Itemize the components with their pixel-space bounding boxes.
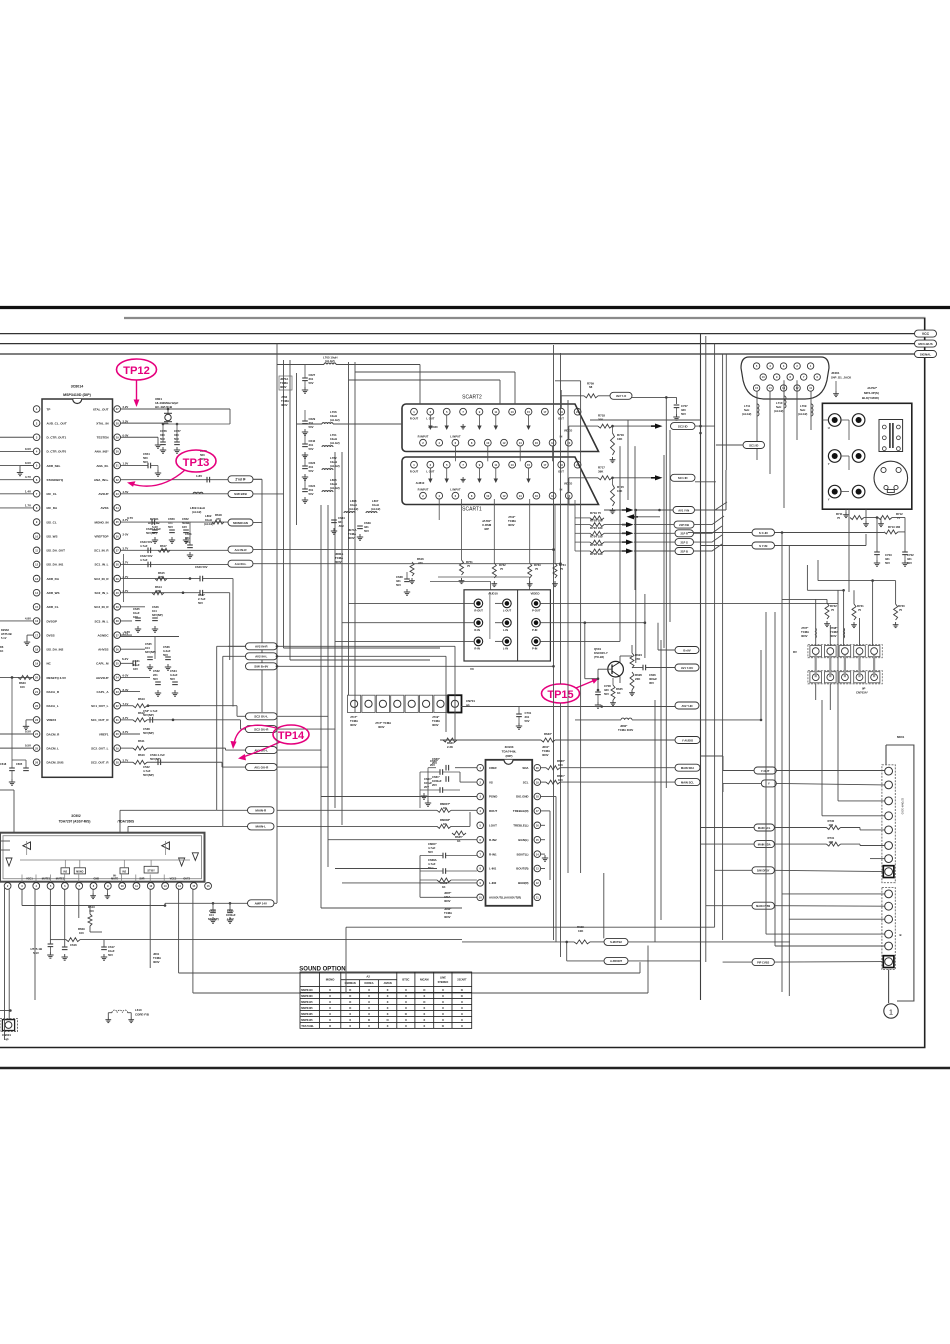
svg-text:R720 180: R720 180 — [590, 519, 603, 523]
svg-text:D_CTR_OUT0: D_CTR_OUT0 — [47, 450, 67, 454]
svg-text:10: 10 — [486, 494, 489, 498]
svg-text:2SCART: 2SCART — [457, 979, 467, 982]
svg-text:4.7V: 4.7V — [25, 475, 31, 479]
svg-text:CORE-F/B: CORE-F/B — [135, 1013, 149, 1017]
svg-text:50V(NP): 50V(NP) — [146, 531, 157, 535]
svg-text:47K: 47K — [635, 657, 641, 661]
wire pin3 down-right long — [21, 889, 23, 905]
M001 bottom stub and sheet reference 1 — [888, 970, 890, 1003]
M001 pin 3 — [885, 797, 893, 805]
svg-text:Y: Y — [828, 462, 830, 466]
svg-text:X: X — [461, 1018, 463, 1022]
svg-text:R612: R612 — [138, 711, 145, 715]
net label MAIN SCL right — [754, 824, 774, 831]
IC903 pin row 7 (R-IN1) — [477, 851, 484, 858]
svg-text:3C8014: 3C8014 — [71, 385, 84, 389]
RCA jack P-IN row 3 — [532, 637, 541, 646]
svg-text:X: X — [442, 1006, 444, 1010]
wire A-FRONT right — [628, 960, 701, 962]
net 21P B arrow — [626, 548, 634, 553]
svg-text:LINE: LINE — [440, 975, 446, 979]
wire to IC U801 left pin — [0, 479, 33, 481]
svg-text:ST-BY: ST-BY — [147, 869, 155, 872]
svg-text:MAIN-L: MAIN-L — [256, 825, 267, 829]
net label AV2 Y-IN — [675, 702, 699, 709]
wire TESTEN to ground — [121, 436, 159, 438]
net label AV1 OU-L — [246, 747, 278, 754]
svg-text:63V(NP): 63V(NP) — [145, 650, 156, 654]
svg-text:300V: 300V — [542, 753, 549, 757]
svg-text:V0: V0 — [470, 667, 474, 671]
svg-text:AV1 Y-IN: AV1 Y-IN — [678, 508, 689, 512]
wire IC903 bottom to S-MUTE2 row — [555, 875, 557, 942]
wire CREF caps — [455, 767, 477, 769]
net label AV1 OU-R — [246, 764, 278, 771]
connector CN701 8P — [348, 695, 361, 712]
svg-text:4-7uF: 4-7uF — [140, 558, 148, 562]
IC U801 pin row 4 (D_CTR_OUT0 / ANA_IN2*) — [33, 448, 40, 455]
svg-text:0.5V: 0.5V — [25, 729, 31, 733]
net label MONO1AN — [228, 519, 253, 526]
IC U801 pin row 21 (DACA_R / CAPL_A) — [33, 688, 40, 695]
svg-text:0.0V: 0.0V — [25, 461, 31, 465]
svg-text:ADR_SEL: ADR_SEL — [47, 464, 61, 468]
svg-text:X: X — [442, 1012, 444, 1016]
wires IC903 left pins to left buses — [321, 796, 477, 798]
wire AMP14V pill to bus x277 — [274, 902, 277, 904]
svg-text:AUXOUT(L)AUXOUT(R): AUXOUT(L)AUXOUT(R) — [489, 896, 521, 900]
wire horizontals upper right — [725, 470, 727, 510]
svg-text:50V: 50V — [170, 677, 175, 681]
svg-text:MAIN SDA: MAIN SDA — [681, 766, 694, 770]
svg-text:17: 17 — [543, 410, 546, 414]
vertical wire to S-MUTE2 — [603, 873, 605, 938]
svg-text:1.8V: 1.8V — [196, 474, 202, 478]
svg-text:TESTEN: TESTEN — [97, 436, 109, 440]
svg-text:18: 18 — [551, 494, 554, 498]
net label AV2 IN-R — [246, 643, 278, 650]
svg-text:13: 13 — [511, 463, 514, 467]
svg-text:MCU-BUS: MCU-BUS — [918, 342, 932, 346]
svg-text:SVR: SVR — [139, 878, 144, 881]
net label 21P G — [675, 539, 694, 546]
net label AV1 Y-OU — [675, 664, 699, 671]
svg-text:S Y-IN: S Y-IN — [759, 544, 767, 548]
svg-text:X: X — [442, 988, 444, 992]
svg-text:10K: 10K — [578, 929, 584, 933]
M001 pin 13 — [885, 942, 893, 950]
connector JK001 pin circles — [753, 363, 759, 369]
svg-text:X: X — [368, 1000, 370, 1004]
svg-text:75: 75 — [899, 608, 903, 612]
wire to IC U801 left pin — [0, 733, 33, 735]
M001 pin 5 — [885, 826, 893, 834]
svg-text:VS: VS — [489, 780, 493, 784]
svg-text:X: X — [387, 1006, 389, 1010]
bottom horizontal y993 chain — [639, 962, 641, 973]
svg-text:MONO: MONO — [76, 871, 83, 873]
svg-text:AV2 Y-O: AV2 Y-O — [616, 394, 626, 398]
IC U801 pin row 19 (NC / CAPL_M) — [33, 660, 40, 667]
svg-text:TDA7449L: TDA7449L — [502, 750, 517, 754]
small buffer triangle left — [6, 858, 12, 866]
svg-text:(ALG2): (ALG2) — [330, 418, 340, 422]
svg-text:A-FRONT: A-FRONT — [610, 959, 622, 963]
svg-text:BGN(R): BGN(R) — [518, 881, 528, 885]
svg-text:X: X — [442, 1000, 444, 1004]
svg-text:75: 75 — [831, 608, 835, 612]
inductor J660 TCMA 300V — [621, 718, 632, 720]
svg-text:300V: 300V — [350, 723, 357, 727]
wire MAIN-R to RM607 — [277, 809, 437, 811]
IC903 pin row 3 (PGND) — [477, 793, 484, 800]
svg-text:SC1_OUT_R: SC1_OUT_R — [91, 718, 110, 722]
net label Ant IN-L — [228, 560, 253, 567]
svg-text:MP4-3P(S): MP4-3P(S) — [864, 391, 879, 395]
svg-text:X: X — [349, 1012, 351, 1016]
wire to IC U801 left pin — [0, 676, 33, 678]
vertical bus right area — [781, 532, 783, 992]
wire to IC U801 left pin — [0, 450, 33, 452]
svg-text:CN701: CN701 — [466, 699, 475, 703]
svg-text:X: X — [387, 1000, 389, 1004]
svg-text:GND: GND — [94, 878, 100, 881]
svg-text:AV2 IN-L: AV2 IN-L — [255, 655, 267, 659]
M001 pin 11 — [885, 915, 893, 923]
svg-text:(DIP): (DIP) — [506, 754, 513, 758]
svg-text:DACA_L: DACA_L — [47, 704, 59, 708]
svg-text:75: 75 — [467, 564, 471, 568]
net SIGNAL label — [915, 351, 937, 358]
svg-text:MSP3410: MSP3410 — [301, 988, 313, 992]
IC U801 pin row 15 (ADR_CL / SC3_IN_R) — [33, 604, 40, 611]
svg-text:MSP3405: MSP3405 — [301, 1006, 313, 1010]
resistor R630 100 on SDA — [541, 767, 546, 769]
connector M001 strip group1 — [882, 765, 895, 883]
svg-text:AHVSS: AHVSS — [98, 648, 108, 652]
svg-text:L-IN2: L-IN2 — [489, 881, 497, 885]
svg-text:(TO-92): (TO-92) — [594, 655, 604, 659]
svg-text:X: X — [368, 988, 370, 992]
IC U801 pin row 11 (I2S_DA_OUT / SC1_IN_R) — [33, 547, 40, 554]
wire amp left edge rows — [0, 840, 10, 842]
svg-text:MSP3445: MSP3445 — [301, 1018, 313, 1022]
svg-text:Ant IN-L: Ant IN-L — [235, 562, 247, 566]
svg-text:16: 16 — [535, 494, 538, 498]
IC U801 pin row 20 (RESETQ 3-5V / AHVSUP) — [33, 674, 40, 681]
left edge vertical wires near amp — [4, 888, 6, 1040]
svg-text:(ALG2): (ALG2) — [349, 507, 358, 511]
svg-text:75: 75 — [560, 567, 564, 571]
vertical bus x666 — [665, 397, 667, 788]
svg-text:39K: 39K — [598, 418, 604, 422]
IC902 pin circles — [4, 883, 11, 890]
svg-text:11: 11 — [494, 463, 497, 467]
wire ANA_IN1+ to 2nd IF — [121, 479, 229, 481]
svg-text:D6: D6 — [0, 645, 4, 649]
svg-text:SC3_IN_L: SC3_IN_L — [94, 619, 108, 623]
wire AUXOUT to bottom — [460, 896, 477, 898]
JK001 pin wires down with inductors — [756, 391, 758, 460]
net label Y-AUDIO — [675, 737, 700, 744]
IC U801 pin row 8 (I2C_DA / AVSS) — [33, 505, 40, 512]
svg-text:I2S_DA_IN2: I2S_DA_IN2 — [47, 648, 64, 652]
vertical bus column left of SCART — [261, 479, 263, 712]
wire AV2 Y-IN bus up — [760, 650, 762, 720]
wire MAIN-L to RM608 — [277, 825, 437, 827]
svg-text:1K: 1K — [0, 649, 3, 653]
wire to IC U801 left pin — [0, 620, 33, 622]
net label SC2 ID — [671, 423, 696, 430]
M001 pin 6 — [885, 842, 893, 850]
svg-text:DIG.GND: DIG.GND — [516, 795, 528, 799]
svg-text:CN601: CN601 — [2, 1033, 11, 1037]
resistor R631 100 on SCL — [541, 781, 546, 783]
IC903 pin row 10 (AUXOUT(L)AUXOUT(R)) — [477, 894, 484, 901]
small buffer triangle right2 — [192, 853, 198, 861]
svg-text:C618: C618 — [0, 762, 7, 766]
svg-text:X: X — [368, 1012, 370, 1016]
svg-text:SC1_IN_R: SC1_IN_R — [94, 549, 109, 553]
svg-text:X: X — [368, 1006, 370, 1010]
svg-text:50V(NP): 50V(NP) — [143, 773, 154, 777]
svg-text:NICAM: NICAM — [420, 978, 429, 982]
bottom frame line outer — [0, 1067, 950, 1070]
svg-text:L-IN: L-IN — [503, 647, 508, 651]
svg-text:I2C_CL: I2C_CL — [47, 492, 58, 496]
svg-text:(ALG2): (ALG2) — [330, 464, 340, 468]
wire junction at Q501 base — [597, 677, 600, 680]
svg-text:SC2 ID: SC2 ID — [678, 424, 689, 428]
vertical bus column under SCART1 — [320, 505, 322, 908]
svg-text:21P B: 21P B — [681, 549, 688, 553]
wire SC1_IN_L to Ant IN-L — [121, 563, 229, 565]
svg-text:(ALG2): (ALG2) — [798, 412, 807, 416]
svg-text:50V: 50V — [309, 469, 314, 473]
IC903 pin row 6 (R-IN2) — [477, 836, 484, 843]
svg-text:21: 21 — [576, 463, 579, 467]
M001 pin 10 — [885, 902, 893, 910]
svg-text:ANA_IN1+: ANA_IN1+ — [94, 478, 109, 482]
svg-text:100: 100 — [558, 778, 563, 782]
net label SC2 OU-R — [246, 726, 278, 733]
capacitor C648 on MONO_IN — [151, 519, 153, 525]
net label MAIN CVBS — [752, 902, 774, 909]
RCA jack P-IN row 2 — [532, 618, 541, 627]
svg-text:TP12: TP12 — [123, 365, 150, 377]
M001 pin 2 — [885, 781, 893, 789]
wire bundle from 21P pills to right columns — [694, 502, 727, 510]
vertical long bus x700 — [700, 334, 702, 1000]
test point TP14 callout — [273, 725, 309, 744]
wires CN703A bottom down — [815, 684, 817, 700]
svg-text:SC2 OU-R: SC2 OU-R — [254, 727, 269, 731]
svg-text:12: 12 — [503, 494, 506, 498]
wire SC2 ID to border — [695, 425, 715, 427]
svg-text:S-MUTE2: S-MUTE2 — [610, 940, 622, 944]
svg-text:68: 68 — [589, 385, 593, 389]
IC U801 pin row 6 (STANDBYQ / ANA_IN1+) — [33, 476, 40, 483]
svg-text:X: X — [329, 1006, 331, 1010]
IC U801 pin row 25 (DACM_L / SC2_OUT_L) — [33, 745, 40, 752]
svg-text:1: 1 — [889, 1008, 893, 1017]
IC U801 pin row 22 (DACA_L / SC1_OUT_L) — [33, 702, 40, 709]
svg-text:VCC: VCC — [922, 332, 930, 336]
wire M001 pin3 — [838, 800, 885, 802]
svg-text:20V: 20V — [430, 763, 435, 767]
svg-text:L-OUT: L-OUT — [503, 609, 512, 613]
svg-text:ADR_DA: ADR_DA — [47, 577, 60, 581]
top border thick line — [0, 306, 950, 309]
svg-text:S C-IN: S C-IN — [759, 531, 768, 535]
svg-text:16: 16 — [535, 441, 538, 445]
svg-text:R-OUT: R-OUT — [474, 609, 483, 613]
long wire y940 to right — [80, 939, 462, 941]
svg-text:14: 14 — [519, 441, 522, 445]
svg-text:SCART2: SCART2 — [462, 395, 482, 401]
svg-text:X: X — [423, 994, 425, 998]
svg-text:300V: 300V — [378, 725, 385, 729]
gray sub-header line — [124, 317, 926, 319]
svg-text:SC2_OUT_R: SC2_OUT_R — [91, 761, 110, 765]
svg-text:TP: TP — [47, 407, 51, 411]
svg-text:75: 75 — [897, 516, 901, 520]
svg-text:BGN(L): BGN(L) — [518, 838, 528, 842]
label SC1 ID pill right — [743, 442, 765, 449]
IC903 pin row 8 (L-IN1) — [477, 865, 484, 872]
svg-text:R713 180: R713 180 — [888, 525, 901, 529]
svg-text:63V(NP): 63V(NP) — [152, 613, 163, 617]
svg-text:3C903: 3C903 — [505, 745, 514, 749]
svg-text:MAIN CVBS: MAIN CVBS — [756, 905, 770, 908]
RCA jack P-OUT row 1 — [532, 599, 541, 608]
svg-text:16V: 16V — [133, 667, 138, 671]
svg-text:50V: 50V — [309, 447, 314, 451]
net label SC1 ID — [671, 474, 696, 481]
svg-text:SCART1: SCART1 — [462, 507, 482, 513]
svg-text:S/W BFB: S/W BFB — [234, 492, 247, 496]
svg-text:MAIN SCL: MAIN SCL — [681, 780, 694, 784]
svg-text:AV1 Y-OU: AV1 Y-OU — [681, 666, 693, 670]
svg-text:L INPUT: L INPUT — [450, 435, 461, 439]
wires into RCA block top — [430, 581, 491, 583]
svg-text:SC2_IN_L: SC2_IN_L — [94, 591, 108, 595]
IC903 pin row 4 (ROUT) — [477, 808, 484, 815]
wire M001 pin4 — [822, 815, 885, 817]
svg-text:X: X — [405, 1018, 407, 1022]
net label S Y-IN — [752, 542, 775, 549]
svg-text:MAIN SDA: MAIN SDA — [758, 842, 771, 846]
svg-text:50V: 50V — [143, 460, 148, 464]
IC903 right pins wires down — [541, 796, 556, 798]
IC902 internal wires — [20, 859, 190, 861]
svg-text:2-5V: 2-5V — [123, 532, 129, 536]
svg-text:14: 14 — [519, 494, 522, 498]
svg-text:STEREO: STEREO — [438, 980, 449, 984]
svg-text:OUT: OUT — [558, 417, 564, 421]
svg-text:Y-OUT: Y-OUT — [761, 769, 770, 773]
wires from RCA block left side — [349, 602, 475, 604]
svg-text:MONO1AN: MONO1AN — [233, 521, 248, 525]
svg-text:21: 21 — [576, 410, 579, 414]
svg-text:(ALG2): (ALG2) — [742, 412, 751, 416]
test point TP15 callout — [542, 684, 580, 703]
svg-text:21P F/B: 21P F/B — [679, 523, 689, 527]
svg-text:MONO_IN: MONO_IN — [94, 520, 108, 524]
wire stub DVSS to ground — [27, 634, 33, 636]
svg-text:5-1V: 5-1V — [33, 951, 39, 955]
svg-text:S4P_D1_JACK: S4P_D1_JACK — [831, 376, 852, 380]
svg-text:X: X — [349, 1018, 351, 1022]
svg-text:50V: 50V — [309, 425, 314, 429]
svg-text:3.7V: 3.7V — [124, 630, 130, 634]
IC U801 pin row 17 (DVSS / AGNDC) — [33, 632, 40, 639]
svg-text:(ALG2): (ALG2) — [192, 510, 201, 514]
svg-text:OUT: OUT — [558, 470, 564, 474]
svg-text:DACM_SUB: DACM_SUB — [47, 761, 65, 765]
svg-text:22K: 22K — [635, 677, 641, 681]
svg-text:21P G: 21P G — [680, 540, 688, 544]
svg-text:SC1 ID: SC1 ID — [749, 443, 758, 447]
svg-text:100: 100 — [79, 931, 84, 935]
wire VCC2 OUT2 down and right — [178, 889, 180, 973]
svg-text:MONO: MONO — [326, 978, 336, 982]
JA702 internal wires — [827, 419, 829, 421]
svg-text:X: X — [387, 1012, 389, 1016]
svg-text:CREF: CREF — [489, 766, 497, 770]
svg-text:RV: RV — [793, 650, 797, 654]
svg-text:Y: Y — [828, 498, 830, 502]
svg-text:X: X — [405, 994, 407, 998]
JA702 ground stubs — [845, 509, 847, 512]
net label MAIN-L — [248, 823, 275, 830]
IC902 pin stub grounds — [92, 889, 94, 893]
net MCU-BUS wire — [0, 343, 915, 345]
svg-text:STANDBYQ: STANDBYQ — [47, 478, 64, 482]
svg-text:SC2 OU-L: SC2 OU-L — [254, 715, 268, 719]
wire from AV2 Y-O to C707 — [632, 396, 677, 398]
svg-text:D_CTR_OUT1: D_CTR_OUT1 — [47, 436, 67, 440]
RCA jack R-IN row 2 — [474, 618, 483, 627]
IC U801 pin row 23 (VREF2 / SC1_OUT_R) — [33, 717, 40, 724]
svg-text:50V: 50V — [428, 850, 433, 854]
wires from RCA block right side — [540, 602, 838, 604]
svg-text:50V: 50V — [681, 412, 686, 416]
svg-text:15: 15 — [527, 410, 530, 414]
svg-text:P-IN: P-IN — [532, 628, 537, 632]
net SC2 ID arrow — [655, 424, 663, 429]
net label S/W DFBY — [752, 867, 774, 874]
connector SCART1 body — [402, 457, 599, 505]
RCA jack R-IN row 3 — [474, 637, 483, 646]
svg-text:300V: 300V — [432, 723, 439, 727]
svg-text:MSP3415: MSP3415 — [301, 1000, 313, 1004]
wires CN703A pins up — [815, 599, 817, 645]
svg-text:75: 75 — [858, 608, 862, 612]
net VCC label — [915, 330, 937, 337]
svg-text:1K: 1K — [617, 691, 621, 695]
svg-text:100: 100 — [558, 763, 563, 767]
net MCU-BUS label — [915, 340, 937, 347]
IC U801 pin row 7 (I2C_CL / AVSUP) — [33, 490, 40, 497]
svg-text:(ALG2): (ALG2) — [330, 486, 340, 490]
net label A-FRONT — [604, 957, 628, 964]
svg-text:VREFTOP: VREFTOP — [94, 534, 108, 538]
svg-text:16V: 16V — [182, 525, 187, 529]
svg-text:TREBLE(R): TREBLE(R) — [513, 809, 529, 813]
svg-text:X: X — [423, 1018, 425, 1022]
wire VREF1 capacitor C538 — [121, 733, 141, 735]
